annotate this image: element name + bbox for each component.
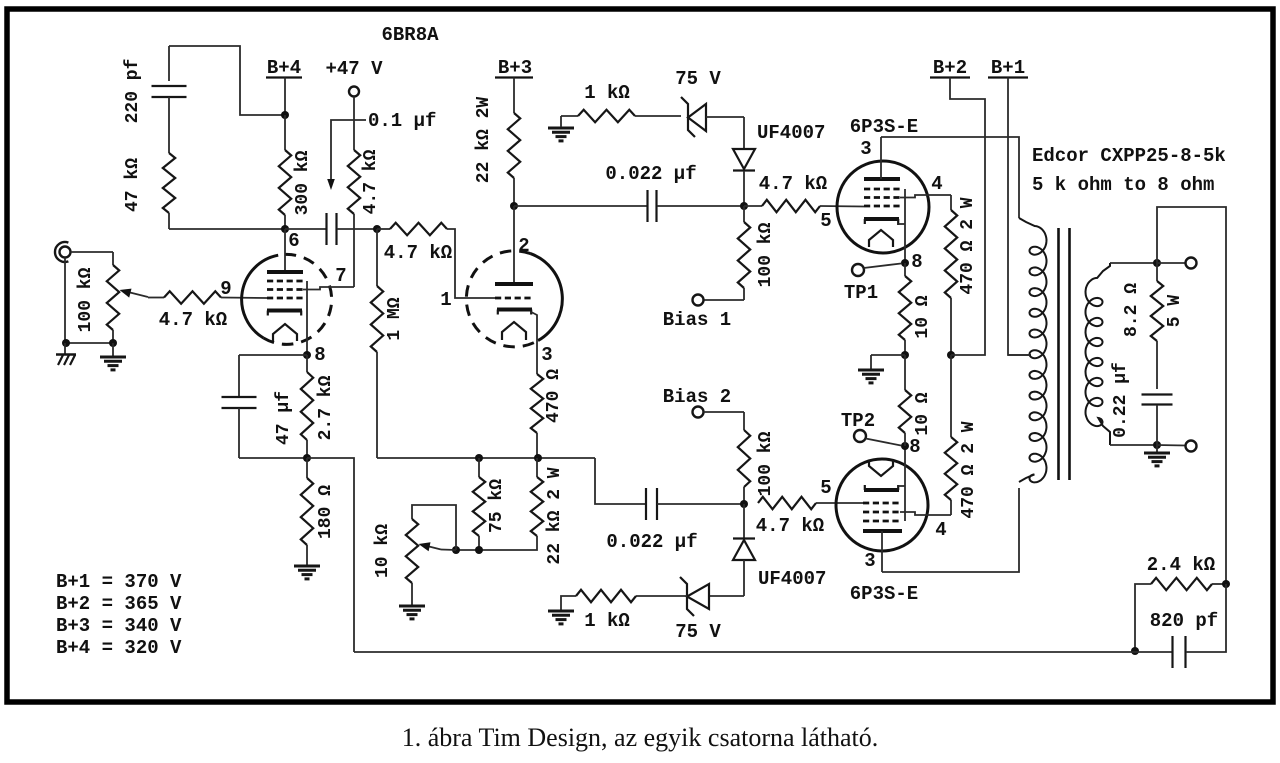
junction V2 plate node	[510, 202, 518, 210]
tube 6P3S-E upper	[837, 116, 929, 253]
svg-text:Bias 1: Bias 1	[663, 309, 731, 331]
wire jack ground bus	[65, 342, 113, 344]
upper tube grid rows	[864, 189, 900, 206]
svg-text:2: 2	[518, 235, 529, 257]
V1 heater	[273, 324, 297, 341]
power B+2	[930, 57, 985, 355]
capacitor 0.022 µf upper coupling	[514, 163, 744, 222]
svg-text:UF4007: UF4007	[757, 122, 825, 144]
capacitor 220 pf	[123, 46, 187, 153]
junction secondary top	[1153, 259, 1161, 267]
svg-text:3: 3	[860, 138, 871, 160]
svg-text:4.7 kΩ: 4.7 kΩ	[361, 149, 381, 214]
svg-text:470 Ω 2 W: 470 Ω 2 W	[958, 197, 978, 294]
wire lower plate to transformer	[882, 488, 1019, 572]
chassis ground input	[56, 343, 76, 365]
junction 75k node	[475, 454, 483, 462]
wire 220pf top loop to B+4 node	[169, 46, 285, 115]
svg-text:8: 8	[911, 251, 922, 273]
power B+4	[266, 57, 302, 115]
capacitor 0.1 µf	[285, 110, 436, 245]
svg-text:8: 8	[314, 344, 325, 366]
resistor 1 kΩ upper	[561, 82, 681, 122]
lower tube heater	[869, 460, 893, 476]
resistor 4.7 kΩ to pentode grid	[377, 223, 495, 298]
svg-text:B+3 = 340 V: B+3 = 340 V	[56, 615, 182, 637]
resistor 4.7 kΩ grid stopper from +47V	[348, 149, 381, 287]
svg-text:0.22 µf: 0.22 µf	[1111, 362, 1131, 438]
junction 75k bottom	[475, 546, 483, 554]
wire feedback from cathode node	[307, 458, 354, 652]
resistor 22 kΩ 2W plate load	[474, 97, 520, 206]
resistor 10 Ω lower	[899, 355, 933, 446]
earth ground pot	[100, 343, 126, 370]
speaker terminal top	[1157, 258, 1197, 269]
svg-text:UF4007: UF4007	[758, 568, 826, 590]
svg-text:22 kΩ 2 W: 22 kΩ 2 W	[545, 467, 565, 564]
junction feedback right	[1222, 580, 1230, 588]
power B+1	[988, 57, 1031, 355]
arrow pointing to 0.1 µf	[327, 120, 366, 190]
svg-text:Edcor CXPP25-8-5k: Edcor CXPP25-8-5k	[1032, 145, 1226, 167]
resistor 470 Ω 2 W upper screen	[945, 197, 978, 355]
svg-text:1 kΩ: 1 kΩ	[584, 82, 630, 104]
potentiometer 10 kΩ bias	[373, 519, 418, 605]
svg-text:6: 6	[288, 230, 299, 252]
tube V2 pentode of 6BR8A envelope	[466, 251, 562, 347]
diode UF4007 lower	[733, 504, 826, 596]
svg-text:300 kΩ: 300 kΩ	[293, 150, 313, 215]
svg-text:2.7 kΩ: 2.7 kΩ	[316, 375, 336, 440]
junction lower pin 8	[901, 436, 921, 458]
terminal Bias 1	[663, 295, 744, 332]
resistor 100 kΩ lower bias feed	[738, 412, 776, 504]
svg-text:4.7 kΩ: 4.7 kΩ	[756, 515, 824, 537]
resistor 22 kΩ 2 W tail	[479, 458, 565, 565]
svg-text:10 kΩ: 10 kΩ	[373, 524, 393, 578]
svg-text:9: 9	[220, 278, 231, 300]
diode UF4007 upper	[733, 117, 825, 206]
svg-text:1 MΩ: 1 MΩ	[385, 297, 405, 340]
svg-text:B+2: B+2	[933, 57, 967, 79]
upper tube pin 4 screen wire	[900, 173, 951, 210]
svg-text:220 pf: 220 pf	[123, 59, 143, 124]
note B+ voltages table	[56, 571, 182, 659]
junction feedback left	[1131, 647, 1139, 655]
svg-text:8.2 Ω: 8.2 Ω	[1122, 283, 1142, 337]
wire driver bias bus	[377, 457, 595, 459]
svg-text:0.022 µf: 0.022 µf	[606, 531, 697, 553]
junction cathode ground node	[901, 351, 909, 359]
svg-text:0.1 µf: 0.1 µf	[368, 110, 436, 132]
lower tube pin 4 screen wire	[900, 500, 951, 541]
transformer Edcor CXPP25-8-5k label	[1032, 145, 1226, 196]
junction B+4 node	[281, 111, 289, 119]
resistor 300 kΩ	[279, 115, 313, 229]
svg-text:10 Ω: 10 Ω	[913, 295, 933, 338]
capacitor 0.22 µf	[1111, 362, 1173, 445]
tube V1 triode of 6BR8A envelope	[242, 254, 332, 344]
resistor 75 kΩ	[473, 458, 507, 551]
resistor 4.7 kΩ lower grid stopper	[756, 497, 863, 537]
svg-text:8: 8	[909, 436, 920, 458]
svg-text:B+1: B+1	[991, 57, 1025, 79]
capacitor 0.022 µf lower coupling	[595, 458, 744, 553]
terminal Bias 2	[663, 386, 744, 418]
V1 plate pin 6	[267, 229, 303, 272]
svg-text:470 Ω 2 W: 470 Ω 2 W	[959, 421, 979, 518]
V1 grid pin 7 wire	[303, 265, 354, 290]
zener 75 V upper	[675, 68, 744, 137]
junction cathode network node	[303, 454, 311, 462]
svg-text:B+2 = 365 V: B+2 = 365 V	[56, 593, 182, 615]
svg-text:1: 1	[440, 289, 451, 311]
svg-text:TP1: TP1	[844, 282, 878, 304]
wire global feedback run	[354, 651, 1135, 653]
lower tube grid rows	[863, 503, 900, 521]
earth ground lower 1k	[548, 610, 574, 613]
svg-text:3: 3	[864, 550, 875, 572]
transformer core	[1059, 228, 1070, 480]
svg-text:5: 5	[820, 210, 831, 232]
junction pot ground	[109, 339, 117, 347]
power B+3	[495, 57, 533, 113]
V1 cathode	[267, 311, 302, 316]
svg-text:B+4 = 320 V: B+4 = 320 V	[56, 637, 182, 659]
svg-text:TP2: TP2	[841, 410, 875, 432]
junction jack ground	[62, 339, 70, 347]
junction pot top tie	[452, 546, 460, 554]
transformer secondary winding	[1086, 263, 1158, 445]
resistor 4.7 kΩ upper grid stopper	[744, 173, 864, 212]
svg-text:B+1 = 370 V: B+1 = 370 V	[56, 571, 182, 593]
V2 grid pin 1	[440, 289, 533, 311]
svg-text:6P3S-E: 6P3S-E	[850, 583, 918, 605]
transformer center tap wire	[1008, 354, 1030, 356]
junction screen feed node	[947, 351, 955, 359]
svg-text:B+3: B+3	[498, 57, 532, 79]
capacitor 47 µf cathode bypass	[222, 355, 308, 458]
svg-text:5 W: 5 W	[1165, 295, 1185, 328]
earth ground upper 1k	[548, 116, 574, 141]
lower tube beam plate lead	[904, 446, 906, 521]
earth ground speaker	[1144, 445, 1170, 466]
junction 22k node	[534, 454, 542, 462]
svg-text:5: 5	[820, 477, 831, 499]
svg-text:B+4: B+4	[267, 57, 301, 79]
resistor 8.2 Ω 5 W	[1122, 263, 1185, 389]
test point TP2	[841, 410, 901, 446]
resistor 470 Ω cathode	[531, 369, 564, 458]
pot wiper arrow	[120, 289, 149, 298]
svg-text:6BR8A: 6BR8A	[381, 24, 439, 46]
svg-text:4.7 kΩ: 4.7 kΩ	[759, 173, 827, 195]
V2 cathode	[497, 310, 532, 315]
svg-text:470 Ω: 470 Ω	[544, 369, 564, 423]
speaker terminal bottom	[1157, 441, 1197, 452]
upper tube plate pin 3	[860, 137, 900, 179]
power terminal +47 V	[325, 58, 383, 150]
junction pin 8 node	[303, 351, 311, 359]
svg-text:4.7 kΩ: 4.7 kΩ	[384, 242, 452, 264]
svg-text:75 V: 75 V	[675, 68, 721, 90]
svg-text:22 kΩ 2W: 22 kΩ 2W	[474, 97, 494, 184]
resistor 2.7 kΩ cathode	[301, 355, 336, 458]
pot 10k wiper arrow	[419, 542, 457, 551]
earth ground 180Ω	[294, 565, 320, 568]
svg-text:10 Ω: 10 Ω	[913, 392, 933, 435]
svg-text:5 k ohm to 8 ohm: 5 k ohm to 8 ohm	[1032, 174, 1214, 196]
V2 plate pin 2	[495, 206, 533, 284]
svg-text:1 kΩ: 1 kΩ	[584, 610, 630, 632]
junction coupling node	[373, 225, 381, 233]
lower tube cathode	[864, 485, 905, 490]
upper tube cathode	[864, 219, 905, 225]
V1 grid	[267, 281, 303, 298]
resistor 10 Ω upper	[899, 263, 933, 355]
wire pot tie loop	[412, 505, 456, 550]
resistor 470 Ω 2 W lower screen	[945, 355, 979, 519]
svg-text:100 kΩ: 100 kΩ	[76, 267, 96, 332]
svg-text:180 Ω: 180 Ω	[316, 485, 336, 539]
junction secondary bottom	[1153, 441, 1161, 449]
test point TP1	[844, 264, 901, 305]
svg-text:2.4 kΩ: 2.4 kΩ	[1147, 554, 1215, 576]
svg-text:4: 4	[931, 173, 942, 195]
junction upper grid node	[740, 202, 748, 210]
svg-text:0.022 µf: 0.022 µf	[605, 163, 696, 185]
earth ground cathode resistors	[858, 355, 905, 383]
junction upper pin 8	[901, 251, 923, 273]
svg-text:75 kΩ: 75 kΩ	[487, 479, 507, 533]
junction lower grid node	[740, 500, 748, 508]
resistor 47 kΩ	[123, 153, 175, 229]
resistor 2.4 kΩ feedback	[1135, 554, 1226, 651]
resistor 4.7 kΩ input grid	[148, 291, 267, 331]
svg-text:3: 3	[541, 344, 552, 366]
V2 heater	[502, 322, 526, 340]
svg-text:47 kΩ: 47 kΩ	[123, 158, 143, 212]
zener 75 V lower	[636, 577, 744, 643]
earth ground 10k pot	[399, 605, 425, 608]
wire upper plate to transformer	[881, 137, 1019, 218]
capacitor 820 pf feedback	[1135, 584, 1226, 668]
junction node 6	[281, 225, 289, 233]
svg-text:4.7 kΩ: 4.7 kΩ	[159, 309, 227, 331]
V1 cathode lead to pin 8	[307, 281, 326, 366]
transformer primary winding	[1019, 218, 1047, 482]
svg-text:75 V: 75 V	[675, 621, 721, 643]
svg-text:47 µf: 47 µf	[274, 391, 294, 445]
potentiometer 100 kΩ volume	[76, 252, 119, 343]
svg-text:6P3S-E: 6P3S-E	[850, 116, 918, 138]
resistor 100 kΩ upper bias feed	[738, 206, 776, 300]
svg-text:100 kΩ: 100 kΩ	[756, 431, 776, 496]
wire feedback tap loop	[1157, 207, 1226, 584]
svg-text:Bias 2: Bias 2	[663, 386, 731, 408]
resistor 1 MΩ	[371, 229, 405, 458]
wire bias adjust bus	[456, 549, 479, 551]
lower tube plate pin 3	[863, 531, 902, 572]
resistor 180 Ω	[301, 458, 336, 565]
svg-text:820 pf: 820 pf	[1150, 610, 1218, 632]
svg-text:+47 V: +47 V	[325, 58, 383, 80]
upper tube beam plate lead	[904, 189, 906, 263]
upper tube heater	[869, 230, 893, 247]
wire 47k bottom to node 6	[169, 228, 285, 230]
svg-text:4: 4	[935, 519, 946, 541]
svg-text:100 kΩ: 100 kΩ	[756, 222, 776, 287]
V2 cathode pin 3 lead	[531, 312, 553, 374]
input jack	[55, 242, 113, 343]
resistor 1 kΩ lower	[561, 590, 636, 632]
tube 6P3S-E lower	[836, 459, 928, 605]
svg-text:7: 7	[335, 265, 346, 287]
